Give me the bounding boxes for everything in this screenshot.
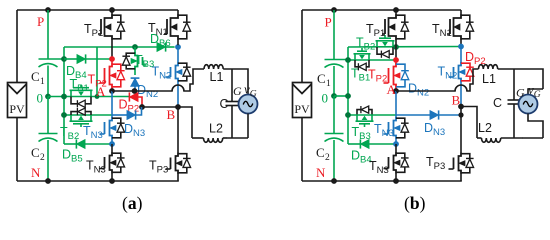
wire C1 to 0 (a) [47,66,49,97]
node 0 (b) [322,91,337,106]
svg-text:G: G [233,84,242,98]
wire L1 to corner (b) [498,69,543,89]
diode DN3 (a) [112,107,145,139]
wire C2 to N (a) [47,140,49,181]
label (a) [122,193,143,213]
wire C branch top (a) [231,69,233,102]
capacitor C2 (a) [31,134,58,164]
node DP2 anode (a) [139,104,145,110]
diode DN2 (a) [131,78,159,101]
diode DP2 (a) [119,92,143,114]
diode DB6 (a) [150,32,175,52]
wire TN1 source (a) [177,40,179,45]
wire drop x97 (a) [96,47,98,97]
wire A vertical blue (a) [111,91,113,118]
wire C2 to N (b) [333,140,335,181]
svg-text:PV: PV [9,102,25,116]
capacitor C2 (b) [316,134,344,164]
transistor TN3 lower (b) [369,144,409,181]
svg-text:L2: L2 [478,121,492,135]
node TB2 junction (b) [393,44,399,50]
wire P to C1 (a) [47,10,49,59]
node TN1-TN2 (b) [458,44,464,50]
wire VG bottom (a) [247,114,249,139]
svg-text:A: A [96,84,106,99]
node DB5 anode (a) [109,141,115,147]
source VG (b) [516,82,541,114]
wire clamp top rail y47 (a) [64,46,157,48]
diode DP2 loop (b) [461,50,486,81]
svg-text:A: A [387,82,397,97]
svg-text:PV: PV [294,102,310,116]
transistor TB3 (b) [352,115,374,142]
capacitor C filter (b) [493,96,521,110]
svg-text:(a): (a) [122,193,143,213]
wire hop over leg2 (b) [455,85,467,91]
wire TB3 source (a) [134,70,136,75]
wire clamp branch vertical (a) [63,47,65,144]
svg-text:1: 1 [40,77,45,87]
PV source (b) [293,83,312,118]
diode DB5 (a) [62,139,112,164]
svg-text:C: C [219,97,228,111]
node DN3 cathode (b) [458,112,463,117]
wire TN3 to DB5 node (a) [111,139,113,144]
inductor L1 (a) [204,65,223,84]
wire L1 to corner (a) [223,69,248,95]
wire P to C1 (b) [333,10,335,60]
inductor L1 (b) [479,65,498,86]
wire left edge lower (b) [301,118,303,182]
transistor TN1 (a) [148,10,191,40]
wire A vertical blue (b) [395,91,397,118]
svg-text:N: N [316,165,326,180]
node TP1-TP2 (a) [109,56,115,62]
PV source (a) [8,83,27,118]
transistor TP1 (a) [84,10,125,40]
transistor TN1 (b) [432,10,474,40]
svg-text:C: C [493,96,502,110]
svg-text:B: B [452,93,461,108]
diode DB4 (b) [348,139,396,165]
wire clamp rail y47 (b) [348,46,461,49]
transistor TN2 no loop (b) [438,47,466,107]
diode DN3 (b) [396,110,461,138]
transistor TB3 (a) [122,47,154,70]
svg-text:2: 2 [325,153,330,163]
wire P rail top (b) [302,9,461,11]
wire C1 to 0 (b) [333,66,335,96]
node P (a) [37,7,51,29]
svg-text:G: G [516,86,525,100]
wire A to hop (a) [112,90,173,92]
wire left edge upper (b) [301,10,303,83]
body diode TB2 (b) [377,47,393,58]
node TN3-N (b) [393,178,399,184]
wire A to hop (b) [396,90,456,92]
wire clamp vertical (b) [347,47,349,144]
svg-text:C: C [316,145,325,160]
inductor L2 (b) [477,121,523,142]
body diode TB1 (b) [355,60,369,70]
wire left edge lower (a) [16,118,18,182]
node A (a) [96,84,115,99]
svg-text:(b): (b) [404,193,426,213]
source VG (a) [233,82,258,114]
wire hop to L1 (a) [183,69,204,91]
node A (b) [387,82,399,97]
transistor TN3 upper (a) [83,117,125,141]
transistor TB2 (b) [356,35,395,53]
transistor TP1 (b) [366,10,409,40]
transistor TN3 lower (a) [86,144,125,181]
wire N rail bottom (a) [17,180,179,182]
body diode TB3 (b) [357,106,372,115]
body diode TB1 (a) [71,97,91,108]
diode DN2 loop (b) [396,64,429,99]
wire 0 to C2 (a) [47,97,49,134]
wire 0 to C2 (b) [333,96,335,134]
wire N rail bottom (b) [302,180,462,182]
inductor L2 (a) [192,122,227,143]
wire hop over leg2 (a) [172,85,184,91]
node P-TP1 (b) [393,7,399,13]
capacitor C1 (b) [317,60,348,90]
node B (a) [167,104,181,122]
svg-text:B: B [167,107,176,122]
wire VG top lead (b) [528,89,543,95]
wire DP2 to B (a) [142,106,178,108]
svg-text:P: P [37,14,44,29]
transistor TB2 (a) [60,115,93,142]
svg-text:N: N [31,165,41,180]
wire TP1 source (a) [111,40,113,59]
wire VG bottom lead (b) [528,114,543,139]
svg-text:2: 2 [40,153,45,163]
transistor TP2 (a) [88,59,125,91]
svg-text:0: 0 [37,91,44,106]
svg-text:L2: L2 [209,122,223,136]
junction C1-DB4 (a) [61,56,67,62]
svg-text:0: 0 [322,91,329,106]
label (b) [404,193,426,213]
capacitor C1 (a) [31,59,64,87]
capacitor C filter (a) [219,97,238,111]
node N (b) [316,165,337,184]
transistor TP2 no loop (b) [368,60,400,91]
svg-text:1: 1 [326,79,331,89]
node TN3-N (a) [109,178,115,184]
wire TN3 to DB4 (b) [395,139,397,144]
wire P rail top (a) [17,9,178,11]
diode DB4 (a) [64,54,112,81]
transistor TB1 (b) [351,48,371,84]
wire bottom output (a) [226,137,248,139]
node B (b) [452,93,464,110]
node TB3 drain (a) [132,44,138,50]
wire TP1 source (b) [395,40,397,60]
node TP1-TP2 (b) [393,57,399,63]
transistor TP3 (a) [149,107,191,181]
wire 0 rail (a) [48,94,130,100]
svg-text:P: P [325,15,332,30]
transistor TN3 upper (b) [374,117,409,139]
wire hop to L1 (b) [466,69,478,91]
node P (b) [325,7,337,29]
wire C branch bottom (b) [513,104,515,138]
svg-text:C: C [31,69,40,84]
wire clamp rail y115 (b) [345,112,396,118]
node N (a) [31,165,51,184]
node DB4 anode (b) [393,141,399,147]
transistor TN2 (a) [152,49,191,107]
node DN2 anode (a) [132,88,138,94]
wire C branch top (b) [513,69,515,100]
svg-text:L1: L1 [482,72,496,86]
body diode TB2 (a) [71,108,91,115]
svg-text:C: C [31,145,40,160]
wire bottom output (b) [522,137,543,139]
wire 0 rail (b) [334,93,351,99]
node P-TP1 (a) [109,7,115,13]
node 0 (a) [37,91,51,106]
node DB6 cathode (a) [175,44,181,50]
transistor TB1 (a) [70,77,93,97]
wire B down to L2 (b) [461,107,477,139]
wire clamp rail y115 (a) [61,112,112,118]
wire TN1 source (b) [460,40,462,44]
wire clamp rail y60 (b) [345,57,396,63]
svg-text:L1: L1 [210,70,224,84]
wire C branch bottom (a) [231,106,233,139]
wire left edge upper (a) [16,10,18,83]
wire B down to L2 (a) [178,107,192,138]
transistor TP3 (b) [426,107,474,182]
svg-text:C: C [317,71,326,86]
